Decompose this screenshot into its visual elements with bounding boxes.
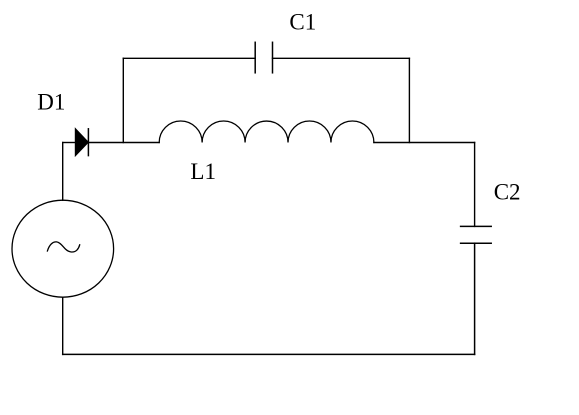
- AC sine symbol: [47, 242, 79, 252]
- bottom wire: [63, 353, 475, 355]
- wire diode to inductor: [88, 142, 159, 144]
- svg-text:L1: L1: [190, 159, 216, 184]
- wire right vertical to C2: [474, 143, 476, 227]
- wire source bottom to bottom wire: [62, 297, 64, 354]
- wire source top to node: [62, 143, 64, 201]
- svg-text:D1: D1: [37, 90, 65, 115]
- wire C1 branch right vertical: [408, 58, 410, 142]
- AC source V1: [12, 200, 114, 297]
- wire inductor to top-right corner: [374, 142, 475, 144]
- node junction to C1 branch: [122, 58, 124, 142]
- capacitor C2 bottom plate: [461, 242, 492, 244]
- wire C1 branch top left: [123, 57, 255, 59]
- wire C2 to bottom-right corner: [474, 243, 476, 354]
- diode D1: [75, 129, 88, 156]
- wire C1 branch top right: [273, 57, 410, 59]
- diode D1 cathode bar: [87, 129, 89, 156]
- capacitor C1 right plate: [272, 42, 274, 73]
- svg-text:C1: C1: [289, 10, 316, 35]
- capacitor C1 left plate: [254, 42, 256, 73]
- inductor L1: [159, 121, 374, 142]
- svg-text:C2: C2: [494, 180, 521, 205]
- capacitor C2 top plate: [461, 225, 492, 227]
- wire node to diode anode: [63, 142, 76, 144]
